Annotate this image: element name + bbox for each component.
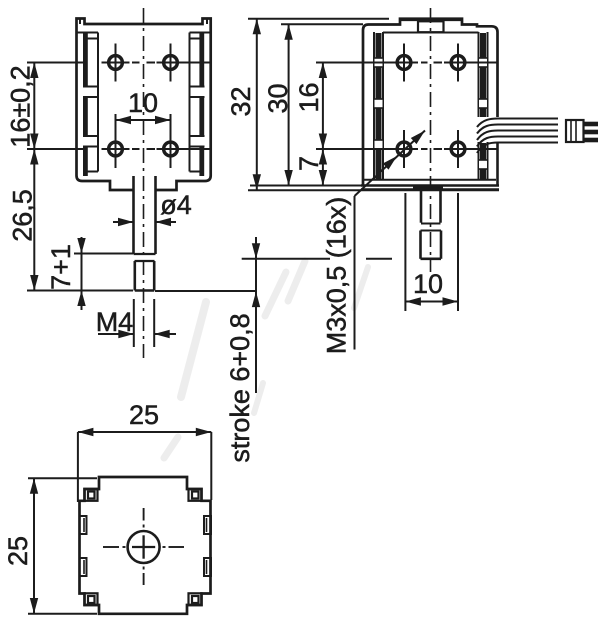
- hole row centerline dashes side view: [421, 62, 428, 64]
- dimension 26,5 extension line: [27, 290, 133, 292]
- hole row centerline dashes front view: [132, 62, 140, 64]
- dimension 16 side: extension lines: [316, 62, 392, 64]
- dimension 32 line and arrows: [256, 19, 258, 190]
- bottom view: corner tab bottom-right: [189, 593, 202, 605]
- side view: tab top thick line: [400, 18, 462, 21]
- side view: hole bottom-right: [451, 142, 465, 156]
- dimension 26,5 line and arrows: [33, 149, 35, 291]
- svg-text:32: 32: [226, 86, 256, 116]
- dimension stroke: extension lines: [242, 258, 330, 260]
- side view: hole top-right: [451, 56, 465, 70]
- bottom view: side bump right lower: [204, 558, 211, 576]
- svg-text:7: 7: [294, 156, 324, 171]
- side view: plunger (retracted): [420, 190, 423, 223]
- front view: mounting hole bottom-right: [164, 142, 178, 156]
- side view: body right edge below wires: [496, 142, 499, 186]
- bottom view: corner tab top-left: [85, 489, 98, 501]
- dimension ø4 arrows: [113, 221, 134, 223]
- front view: top tab inner lines: [79, 19, 81, 25]
- dimension 25 top: line and arrows: [78, 431, 211, 433]
- wires: connector pins: [584, 122, 598, 127]
- dimension 7+1 extension line: [74, 253, 133, 255]
- side view: left channel: [373, 32, 375, 180]
- side view: body outline left/top with tab: [363, 19, 498, 186]
- dimension 25 left: line and arrows: [33, 478, 35, 613]
- side view: tab window: [418, 21, 444, 32]
- svg-text:10: 10: [128, 88, 158, 118]
- dimension 10 front: line and arrows: [116, 119, 171, 121]
- dimension 7 side: line and arrows: [322, 149, 324, 186]
- front view: plunger: [132, 176, 135, 254]
- side view: bottom plate: [364, 179, 496, 181]
- wires: lead bundle: [477, 119, 558, 128]
- svg-text:stroke 6+0,8: stroke 6+0,8: [225, 313, 255, 462]
- dimension 10 side: line and arrows: [405, 301, 458, 303]
- svg-text:10: 10: [413, 269, 443, 299]
- dimension 16 side: line and arrows: [322, 63, 324, 150]
- side view: right channel: [478, 32, 480, 117]
- dimension 16±0,2 extension lines: [27, 62, 84, 64]
- dimension 10 front: extension lines: [115, 114, 117, 144]
- side view: bottom plate dark segment under plunger: [413, 185, 443, 190]
- dimension M4 extension lines: [133, 299, 135, 347]
- bottom view: body outline: [80, 477, 211, 614]
- front view: right channel: [189, 33, 191, 172]
- svg-text:ø4: ø4: [160, 190, 192, 220]
- svg-text:M3x0,5 (16x): M3x0,5 (16x): [322, 197, 352, 355]
- dimension stroke 6+0,8: line and arrows: [255, 237, 257, 393]
- svg-text:16: 16: [294, 82, 324, 112]
- dimension 7+1 line and arrows: [81, 237, 83, 310]
- wires: connector block: [566, 120, 584, 142]
- front view: mounting hole bottom-left: [109, 142, 123, 156]
- svg-text:25: 25: [3, 536, 33, 566]
- bottom view: corner tab top-right: [189, 489, 202, 501]
- bottom view: side bump left lower: [80, 558, 87, 576]
- side view: hole bottom-left: [397, 142, 411, 156]
- svg-text:M4: M4: [96, 307, 134, 337]
- dimension 16±0,2 line and arrows: [33, 63, 35, 150]
- dimension 10 side: extension lines: [404, 193, 406, 311]
- dimension M4 arrows: [98, 333, 134, 335]
- svg-text:7+1: 7+1: [46, 244, 76, 290]
- bottom view: corner tab bottom-left: [85, 593, 98, 605]
- faint watermark strokes: [265, 272, 286, 316]
- side view: top inner edge: [383, 32, 479, 34]
- dimension 25 top: extension lines: [77, 432, 79, 502]
- svg-text:30: 30: [263, 83, 293, 113]
- front view: mounting hole top-right: [164, 56, 178, 70]
- leader mid arrowhead: [383, 156, 397, 170]
- front view: mounting hole top-left: [109, 56, 123, 70]
- front view: vertical centerline: [143, 8, 145, 358]
- dimension 30 extension lines: [281, 23, 363, 25]
- dimension 32 extension lines: [248, 18, 389, 20]
- bottom view: side bump left upper: [80, 516, 87, 534]
- leader line M3x0,5: [354, 196, 356, 350]
- dimension 30 line and arrows: [288, 24, 290, 185]
- dimension 25 left: extension lines: [28, 477, 97, 479]
- svg-text:26,5: 26,5: [8, 189, 38, 242]
- bottom view: center mark dashes: [103, 546, 119, 548]
- side view: vertical centerline: [430, 8, 432, 272]
- bottom view: center hole: [128, 531, 160, 563]
- svg-text:25: 25: [129, 400, 159, 430]
- svg-text:16±0,2: 16±0,2: [6, 65, 36, 147]
- side view: hole top-left: [397, 56, 411, 70]
- front view: bracket outline: [77, 19, 211, 191]
- front view: left channel: [97, 33, 99, 172]
- bottom view: side bump right upper: [204, 516, 211, 534]
- leader arrowhead at hole: [411, 131, 425, 145]
